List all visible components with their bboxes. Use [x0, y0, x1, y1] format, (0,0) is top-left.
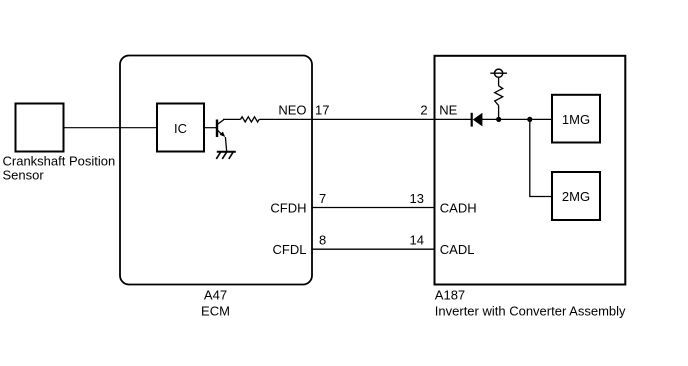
svg-text:8: 8	[319, 232, 326, 247]
svg-text:1MG: 1MG	[562, 112, 590, 127]
IC U1	[157, 104, 204, 152]
transistor Q1	[217, 120, 225, 138]
svg-text:IC: IC	[174, 121, 187, 136]
wire diode to 1MG	[482, 118, 552, 120]
wire resistor to pin 17	[259, 118, 312, 120]
svg-text:NE: NE	[439, 103, 457, 118]
wire resistor to terminal	[498, 77, 500, 86]
svg-text:14: 14	[410, 232, 424, 247]
resistor R2 (pull-up)	[495, 86, 503, 106]
wire junction to resistor	[498, 105, 500, 119]
svg-text:NEO: NEO	[278, 103, 306, 118]
wire IC to transistor base	[204, 127, 217, 129]
svg-text:A47: A47	[204, 287, 227, 302]
2MG box	[552, 172, 600, 220]
ECM block A47	[120, 56, 312, 285]
wire CFDL to CADL (pin 8 to pin 14)	[312, 248, 435, 250]
svg-text:CFDH: CFDH	[270, 200, 306, 215]
Crankshaft Position Sensor box	[16, 104, 64, 152]
svg-text:Inverter with Converter Assemb: Inverter with Converter Assembly	[435, 303, 626, 318]
svg-text:A187: A187	[435, 287, 465, 302]
wire NEO to NE (pin 17 to pin 2)	[312, 118, 435, 120]
svg-text:2: 2	[420, 103, 427, 118]
svg-text:2MG: 2MG	[562, 189, 590, 204]
svg-text:CADH: CADH	[440, 200, 477, 215]
svg-text:17: 17	[315, 103, 329, 118]
svg-text:13: 13	[410, 191, 424, 206]
svg-text:CADL: CADL	[440, 242, 475, 257]
A187 block Inverter with Converter Assembly	[435, 56, 626, 285]
junction node (2MG tap)	[527, 117, 532, 122]
diode D1	[472, 113, 483, 127]
junction node (resistor tap)	[496, 117, 501, 122]
terminal (circle)	[490, 69, 507, 77]
wire NE to diode	[435, 118, 472, 120]
resistor R1 (NEO line)	[241, 117, 260, 122]
wire CFDH to CADH (pin 7 to pin 13)	[312, 207, 435, 209]
wire sensor to IC	[64, 127, 158, 129]
svg-text:CFDL: CFDL	[273, 242, 307, 257]
svg-text:7: 7	[319, 191, 326, 206]
wire junction to 2MG	[530, 119, 552, 196]
svg-text:ECM: ECM	[201, 303, 230, 318]
wire collector to resistor	[223, 118, 241, 120]
svg-text:Sensor: Sensor	[3, 167, 45, 182]
1MG box	[552, 95, 600, 143]
svg-text:Crankshaft Position: Crankshaft Position	[3, 153, 116, 168]
wire transistor emitter to ground	[225, 137, 226, 152]
ground	[216, 152, 236, 159]
